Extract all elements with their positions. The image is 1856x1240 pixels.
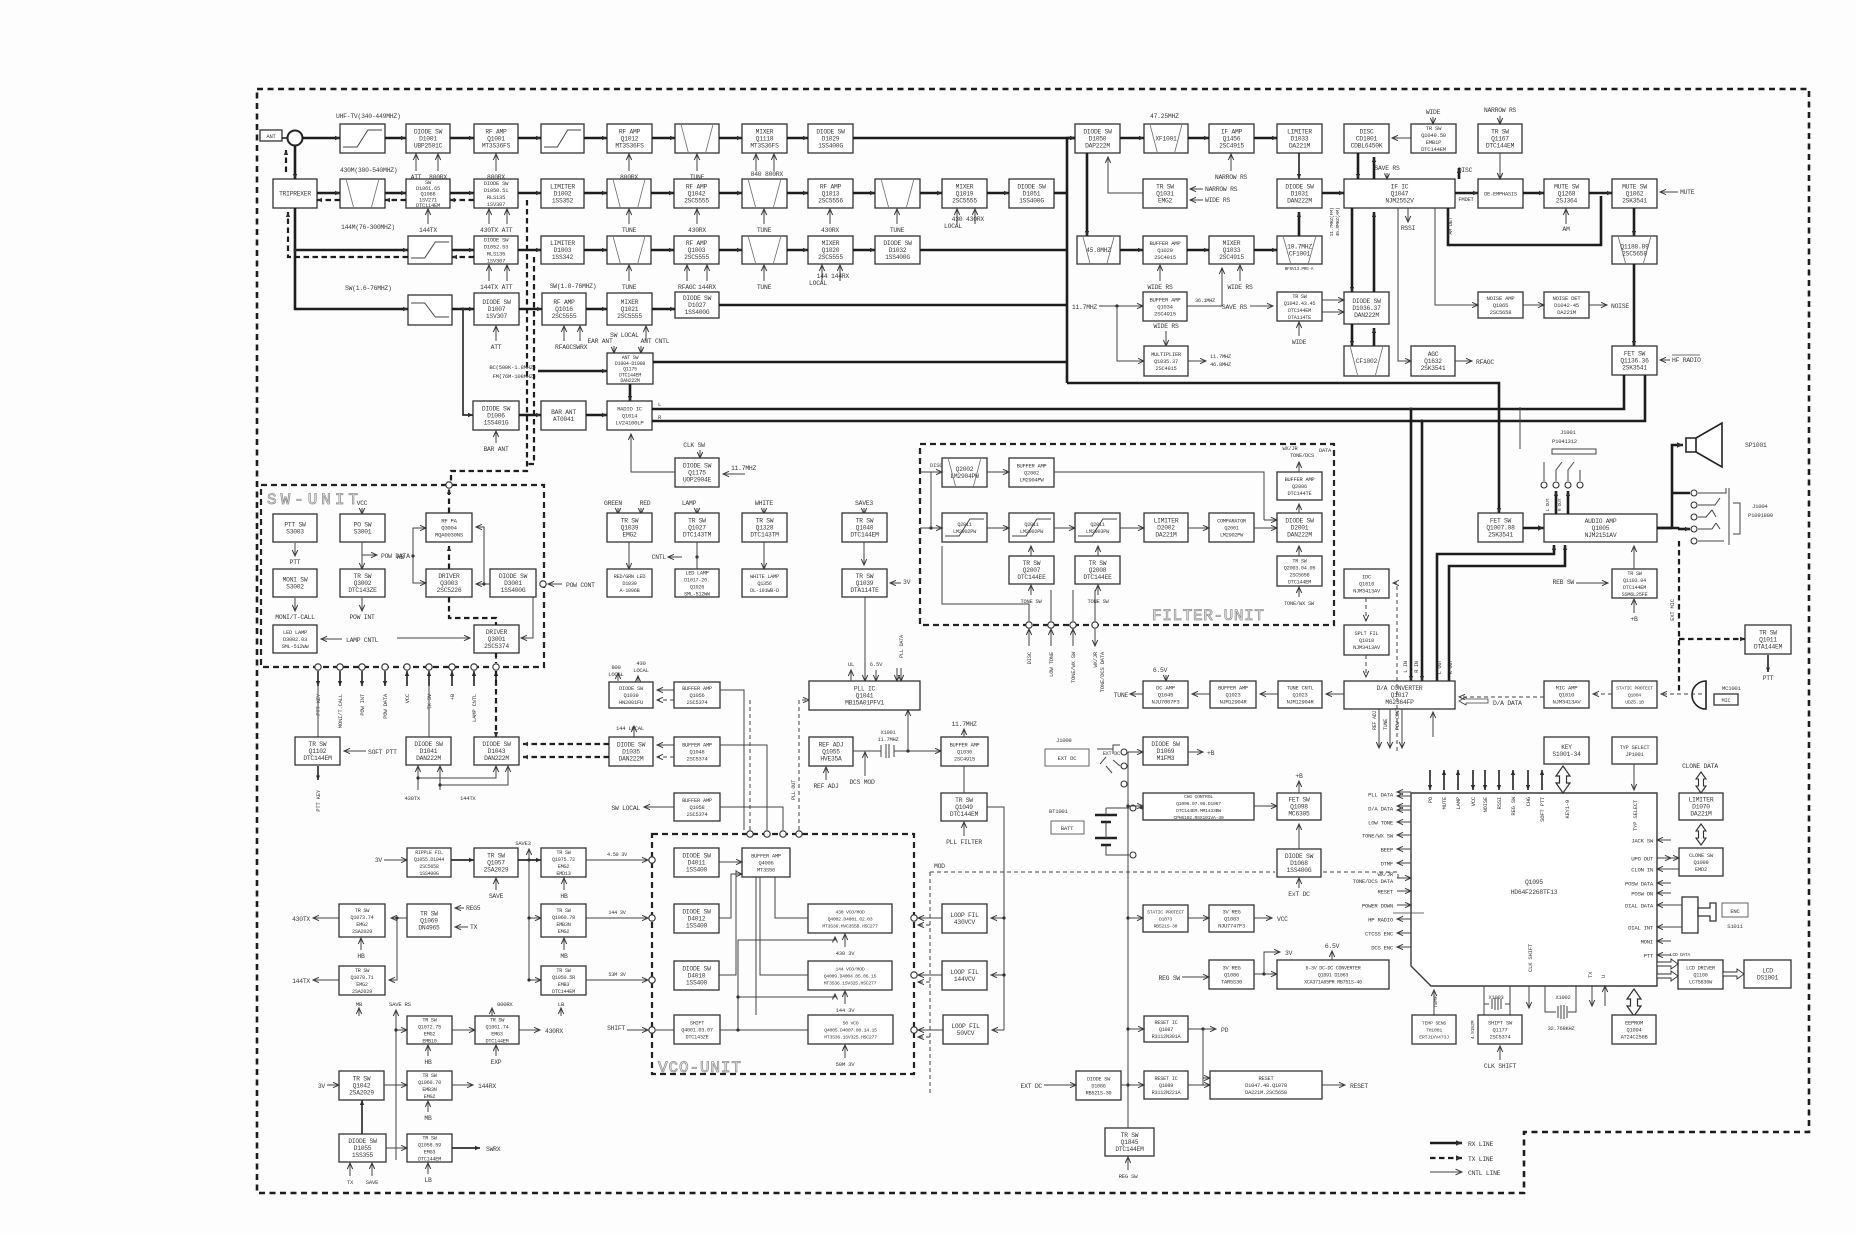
svg-text:S3002: S3002 <box>286 584 304 591</box>
svg-text:Q1060.70: Q1060.70 <box>418 1080 441 1086</box>
svg-text:LOCAL: LOCAL <box>809 280 827 287</box>
svg-text:FET SW: FET SW <box>1288 797 1310 804</box>
svg-text:2SC5374: 2SC5374 <box>484 643 509 650</box>
svg-text:144M(76-300MHZ): 144M(76-300MHZ) <box>341 224 395 231</box>
svg-text:2SC5555: 2SC5555 <box>684 198 709 205</box>
wire rx row3 <box>518 249 541 252</box>
LCD DS1001 <box>1744 960 1791 988</box>
svg-text:DTC144EM.MM1433BW: DTC144EM.MM1433BW <box>1176 808 1221 814</box>
shift to 430vco <box>738 937 835 1030</box>
svg-text:11.7MHZ: 11.7MHZ <box>878 737 900 743</box>
svg-text:Q1069: Q1069 <box>420 918 438 925</box>
svg-text:2SC5555: 2SC5555 <box>617 313 642 320</box>
filter LPF 800 <box>541 124 584 153</box>
svg-text:2SA2029: 2SA2029 <box>349 1090 374 1097</box>
svg-text:MIXER: MIXER <box>822 240 840 247</box>
svg-text:POWER DOWN: POWER DOWN <box>1362 903 1393 910</box>
svg-text:2SC5555: 2SC5555 <box>818 254 843 261</box>
svg-text:Q1057: Q1057 <box>487 860 505 867</box>
svg-text:Q1017: Q1017 <box>1391 692 1409 699</box>
AGC Q1632 <box>1411 346 1455 376</box>
wire D1031 to IF IC <box>1322 192 1344 195</box>
svg-text:RESET IC: RESET IC <box>1155 1020 1178 1026</box>
svg-text:TONE/WX SW: TONE/WX SW <box>1362 833 1394 840</box>
transistor switch Q1061-74 <box>475 1016 519 1044</box>
svg-text:BUFFER AMP: BUFFER AMP <box>682 743 712 749</box>
svg-text:LB: LB <box>424 1177 432 1184</box>
svg-text:DA221M: DA221M <box>1289 143 1311 150</box>
bandpass filter 430 <box>340 179 385 208</box>
svg-text:840: 840 <box>751 171 762 178</box>
svg-text:LM2902PW: LM2902PW <box>1220 533 1244 539</box>
svg-text:TUNE CNTL: TUNE CNTL <box>1287 686 1314 692</box>
svg-text:AGC: AGC <box>1428 351 1439 358</box>
wire lpf to D1007 <box>452 308 474 311</box>
svg-text:Q1055.D1044: Q1055.D1044 <box>414 857 445 863</box>
wire rx if chain <box>1254 137 1277 140</box>
svg-text:TX LINE: TX LINE <box>1468 1156 1494 1163</box>
D2001 up to Q2006 <box>1298 504 1300 513</box>
bandpass filter 144 b <box>742 236 787 264</box>
svg-text:DIODE SW: DIODE SW <box>1151 741 1180 748</box>
svg-text:D1003: D1003 <box>554 247 572 254</box>
svg-text:PD: PD <box>1221 1027 1229 1034</box>
svg-text:TONE/WX SW: TONE/WX SW <box>1284 601 1315 607</box>
svg-text:MT3S56: MT3S56 <box>757 868 775 874</box>
svg-text:2SC4915: 2SC4915 <box>1156 366 1177 372</box>
svg-text:2SC5374: 2SC5374 <box>687 757 708 763</box>
svg-text:2SC5658: 2SC5658 <box>1622 251 1647 258</box>
svg-text:1SV307: 1SV307 <box>486 313 508 320</box>
svg-text:PLL IC: PLL IC <box>854 686 876 693</box>
svg-text:D1002: D1002 <box>554 191 572 198</box>
down to reset box <box>1202 1029 1204 1085</box>
Q1027 down to LED lamp <box>696 542 698 569</box>
wire rx row3 <box>651 249 674 252</box>
VCO-UNIT boundary <box>652 834 914 1074</box>
svg-text:R3112N221A: R3112N221A <box>1152 1090 1182 1096</box>
svg-text:DIODE SW: DIODE SW <box>348 1138 377 1145</box>
svg-text:MB: MB <box>560 953 568 960</box>
svg-text:KEY1-9: KEY1-9 <box>1564 800 1571 819</box>
transistor switch Q1040 <box>842 513 887 542</box>
transistor switch Q1069 <box>407 904 451 937</box>
svg-text:DRIVER: DRIVER <box>486 629 508 636</box>
limiter D1070 <box>1679 793 1723 820</box>
svg-text:DIODE SW: DIODE SW <box>1285 853 1314 860</box>
temp sensor TH1001 <box>1412 1015 1456 1044</box>
svg-text:RESET: RESET <box>1259 1076 1275 1082</box>
svg-text:Q1167: Q1167 <box>1491 136 1509 143</box>
lpf Q2011 a <box>942 513 987 542</box>
svg-text:Q1100: Q1100 <box>1693 973 1707 979</box>
svg-text:2SC5374: 2SC5374 <box>1490 1035 1511 1041</box>
LED lamp D1017-20 <box>675 569 719 597</box>
svg-text:Q1011: Q1011 <box>1759 637 1777 644</box>
svg-text:Q1042: Q1042 <box>688 191 706 198</box>
loop filter 50 <box>943 1015 988 1044</box>
into Q3001 left <box>397 637 470 639</box>
svg-text:TX: TX <box>470 924 478 931</box>
svg-text:BT1001: BT1001 <box>1049 808 1069 815</box>
noise amp to det <box>1523 304 1544 306</box>
svg-text:WIDE RS: WIDE RS <box>1153 323 1179 330</box>
D3001 to driver Q3003 <box>476 583 490 585</box>
mixer Q1033 <box>1209 236 1254 264</box>
svg-text:144VCV: 144VCV <box>954 976 976 983</box>
svg-text:RF PA: RF PA <box>441 518 457 525</box>
loop filter 144 <box>942 961 987 990</box>
svg-text:SHIFT: SHIFT <box>607 1025 625 1032</box>
svg-text:RFAGC: RFAGC <box>1476 359 1494 366</box>
bandpass filter 144 <box>607 236 651 264</box>
svg-text:144TX: 144TX <box>460 795 476 802</box>
svg-text:UBP2501C: UBP2501C <box>414 143 443 150</box>
svg-text:BUFFER AMP: BUFFER AMP <box>682 798 712 804</box>
svg-text:TRIPREXER: TRIPREXER <box>279 191 311 198</box>
svg-text:Q3001: Q3001 <box>488 636 506 643</box>
svg-text:Q1014: Q1014 <box>622 413 638 420</box>
svg-text:Q1042: Q1042 <box>353 1083 371 1090</box>
svg-text:HB: HB <box>424 1059 432 1066</box>
CF1002 up to D1036 <box>1373 328 1376 346</box>
svg-text:6.5V: 6.5V <box>870 661 883 668</box>
svg-text:DTA114TE: DTA114TE <box>1288 315 1311 321</box>
svg-text:D1017-20.: D1017-20. <box>684 578 710 584</box>
AM DET route <box>1448 196 1601 245</box>
svg-text:DIODE SW: DIODE SW <box>1017 184 1046 191</box>
mixer Q1020 <box>808 236 853 264</box>
LCD data bus arrows <box>1657 959 1678 969</box>
svg-text:DAN222M: DAN222M <box>1287 532 1312 539</box>
transistor switch Q1845 <box>1105 1128 1154 1156</box>
svg-text:TR SW: TR SW <box>1426 125 1442 132</box>
svg-text:TH1001: TH1001 <box>1426 1028 1442 1034</box>
limiter D2002 <box>1144 513 1188 542</box>
tx dashed row2 <box>450 199 474 201</box>
comparator Q2001 <box>1209 513 1254 542</box>
diode switch D1050 <box>1075 124 1120 153</box>
svg-text:BUFFER AMP: BUFFER AMP <box>1149 297 1181 304</box>
svg-text:1SS355: 1SS355 <box>352 1152 374 1159</box>
svg-text:RF AMP: RF AMP <box>686 240 708 247</box>
save rs up arrow <box>395 1010 397 1044</box>
svg-text:TR SW: TR SW <box>487 853 505 860</box>
wire rx row2 <box>317 192 340 195</box>
svg-text:Q1268: Q1268 <box>1558 191 1576 198</box>
legend <box>1430 1142 1462 1145</box>
svg-text:RSSI: RSSI <box>1496 797 1503 809</box>
mod into vco <box>918 1036 930 1038</box>
save3 long vertical <box>528 860 530 980</box>
svg-text:SAVE RS: SAVE RS <box>1374 165 1400 172</box>
svg-text:Q1010: Q1010 <box>1359 638 1374 644</box>
svg-text:EMB3N: EMB3N <box>556 922 570 928</box>
svg-text:TR SW: TR SW <box>354 573 372 580</box>
filter amp Q1188-89 <box>1612 236 1657 264</box>
diode switch D4010 <box>674 961 719 990</box>
svg-text:Q1060.78: Q1060.78 <box>552 915 575 921</box>
svg-text:KEY: KEY <box>1561 744 1572 751</box>
wire rx row1 <box>450 137 474 140</box>
svg-text:DE-EMPHASIS: DE-EMPHASIS <box>1484 192 1517 198</box>
svg-text:Q1023: Q1023 <box>1226 693 1241 699</box>
svg-text:Q2006: Q2006 <box>1292 484 1307 490</box>
svg-text:MT3S36FS: MT3S36FS <box>482 143 511 150</box>
svg-text:TX: TX <box>347 1179 354 1186</box>
triplexer to SW lpf <box>295 250 408 309</box>
svg-text:11.7MHZ: 11.7MHZ <box>951 721 977 728</box>
svg-text:D1050.51: D1050.51 <box>484 187 509 194</box>
Q1069 to Q1070 <box>389 918 397 980</box>
POW CONT in <box>548 583 562 585</box>
svg-text:Q1061.74: Q1061.74 <box>486 1025 509 1031</box>
svg-text:430TX: 430TX <box>480 227 498 234</box>
diode switch D3001 <box>490 569 536 597</box>
svg-text:BUFFER AMP: BUFFER AMP <box>1285 477 1315 483</box>
svg-text:R OUT: R OUT <box>1557 498 1563 511</box>
svg-text:EMG2: EMG2 <box>424 1094 436 1100</box>
power switch S3001 <box>340 514 385 542</box>
svg-text:Q1073.74: Q1073.74 <box>351 915 374 921</box>
svg-text:1SV307: 1SV307 <box>487 258 505 265</box>
svg-text:TX: TX <box>1587 971 1594 978</box>
dial int wire <box>1671 926 1682 928</box>
svg-text:D1069: D1069 <box>1157 748 1175 755</box>
ripple filter Q1055 <box>407 848 451 877</box>
svg-text:SAVE RS: SAVE RS <box>389 1001 412 1008</box>
svg-text:AT24C256B: AT24C256B <box>1621 1035 1649 1041</box>
svg-text:D1032: D1032 <box>889 247 907 254</box>
R wire to FET SW <box>652 375 1645 421</box>
svg-text:M1FM3: M1FM3 <box>1157 755 1175 762</box>
ref adjust Q1055 <box>809 737 853 766</box>
svg-text:TR SW: TR SW <box>955 797 973 804</box>
svg-text:53M 3V: 53M 3V <box>608 972 626 978</box>
D/A DATA bus arrow <box>1459 697 1488 705</box>
dashed to TR SW Q1011 <box>1679 638 1745 640</box>
crosslink to D1043 <box>418 766 496 778</box>
svg-text:2SK3541: 2SK3541 <box>1421 365 1446 372</box>
FET switch Q1007-08 <box>1478 513 1523 542</box>
bar antenna AT0041 <box>541 401 586 430</box>
svg-text:Q1091 D1063: Q1091 D1063 <box>1318 973 1349 979</box>
MOD dashed b <box>1323 872 1406 878</box>
svg-text:SW(1.6-76MHZ): SW(1.6-76MHZ) <box>345 285 392 292</box>
antenna circle <box>288 131 303 146</box>
filter chain wire <box>1254 527 1277 529</box>
svg-text:DISC: DISC <box>1026 651 1033 664</box>
svg-text:IDC: IDC <box>1362 575 1371 581</box>
svg-text:TR SW: TR SW <box>422 1136 437 1142</box>
svg-text:DA221M: DA221M <box>1690 811 1712 818</box>
svg-text:+B: +B <box>1630 616 1638 623</box>
transistor switch Q1042b <box>339 1071 384 1100</box>
wire rx if chain <box>1120 137 1144 140</box>
mic amp Q1010 <box>1544 681 1589 708</box>
svg-text:MIXER: MIXER <box>956 184 974 191</box>
svg-text:2SC4915: 2SC4915 <box>1154 254 1176 261</box>
svg-text:CLK SW: CLK SW <box>683 442 705 449</box>
svg-text:MB: MB <box>424 1115 432 1122</box>
temp to cpu <box>1433 990 1435 1015</box>
EEPROM bus arrow <box>1627 989 1641 1016</box>
svg-text:D1052.53: D1052.53 <box>484 244 508 251</box>
svg-text:MIC AMP: MIC AMP <box>1556 685 1579 692</box>
tx dashed ant up <box>285 150 287 172</box>
svg-text:DS1001: DS1001 <box>1757 975 1779 982</box>
svg-text:R3112N301A: R3112N301A <box>1152 1034 1182 1040</box>
svg-text:Q1023: Q1023 <box>1293 693 1308 699</box>
wire CF1001 up to D1031 <box>1298 212 1301 236</box>
svg-text:D1047.48.Q1078: D1047.48.Q1078 <box>1245 1083 1287 1089</box>
wire rx row2 <box>920 192 942 195</box>
diode switch D4011 <box>674 848 719 877</box>
D1055 up to Q1042 <box>361 1100 363 1134</box>
svg-text:D1070: D1070 <box>1692 804 1710 811</box>
pll filter down <box>987 807 1004 1030</box>
diode switch D1050-51 <box>474 179 518 208</box>
svg-text:J1009: J1009 <box>1056 737 1072 744</box>
svg-text:TR SW: TR SW <box>1023 560 1041 567</box>
svg-text:DIAL INT: DIAL INT <box>1628 925 1654 932</box>
svg-text:Q1456: Q1456 <box>1223 136 1241 143</box>
svg-text:430: 430 <box>952 216 963 223</box>
svg-text:Q2011: Q2011 <box>957 522 971 528</box>
svg-text:MULTIPLIER: MULTIPLIER <box>1151 352 1182 358</box>
diode switch D1043 <box>474 737 519 765</box>
svg-text:800: 800 <box>611 664 621 671</box>
svg-text:JP1001: JP1001 <box>1626 752 1644 758</box>
svg-text:R IN: R IN <box>1414 661 1420 673</box>
svg-text:LOOP FIL: LOOP FIL <box>950 912 979 919</box>
ceramic filter CF1002 <box>1344 346 1389 376</box>
svg-text:LB: LB <box>558 1001 565 1008</box>
svg-text:PTT KEY: PTT KEY <box>315 789 322 812</box>
svg-text:NOISE: NOISE <box>1482 796 1489 812</box>
vertical bus to D1050 <box>1067 138 1075 383</box>
svg-text:LAMP: LAMP <box>682 500 697 507</box>
buffer amp Q1023 <box>1210 681 1256 708</box>
mod into vco <box>918 924 930 926</box>
svg-text:Q1087: Q1087 <box>1159 1027 1173 1033</box>
svg-text:Q2008: Q2008 <box>1089 567 1107 574</box>
mic to static protect <box>1661 693 1702 695</box>
svg-text:REG SW: REG SW <box>1158 975 1180 982</box>
red green LED D1039 <box>607 569 652 597</box>
svg-text:430 VCO/MOD: 430 VCO/MOD <box>836 910 865 916</box>
svg-text:EMB3: EMB3 <box>558 982 570 988</box>
svg-text:MB: MB <box>356 1001 363 1008</box>
wire Q1049 to DISC <box>1392 137 1411 139</box>
dashed Q3003 to Q3001 <box>449 597 496 625</box>
svg-text:MIXER: MIXER <box>621 299 639 306</box>
svg-text:GREEN: GREEN <box>604 500 622 507</box>
RF amp Q1016 <box>542 293 586 325</box>
svg-text:NJM3413AV: NJM3413AV <box>1353 589 1381 595</box>
typ select to cpu <box>1633 764 1635 790</box>
svg-text:DIODE SW: DIODE SW <box>1352 298 1381 305</box>
dashed Q3001 down <box>495 653 497 663</box>
L in down to D/A <box>1410 409 1413 681</box>
svg-text:DIODE SW: DIODE SW <box>414 129 443 136</box>
svg-text:VCC: VCC <box>357 500 368 507</box>
diode switch D1001 <box>406 124 450 153</box>
svg-text:LM2902PW: LM2902PW <box>953 529 977 535</box>
svg-text:SP1001: SP1001 <box>1745 442 1767 449</box>
svg-text:Q1083: Q1083 <box>1224 917 1239 923</box>
svg-text:D3001: D3001 <box>504 580 522 587</box>
svg-text:WIDE RS: WIDE RS <box>1227 284 1253 291</box>
svg-text:+B: +B <box>1295 773 1303 780</box>
transistor switch Q1075-72 <box>541 848 586 877</box>
upo out to clone sw <box>1671 857 1679 859</box>
svg-text:Q1356: Q1356 <box>757 581 771 587</box>
svg-text:L IN: L IN <box>1403 661 1409 673</box>
mute switch Q1062 <box>1612 179 1657 208</box>
svg-text:TYP SELECT: TYP SELECT <box>1620 745 1651 751</box>
svg-text:Q1021: Q1021 <box>621 306 639 313</box>
mixer Q1021 <box>607 293 652 325</box>
svg-text:AM: AM <box>1562 226 1570 233</box>
svg-text:MONI SW: MONI SW <box>283 577 308 584</box>
svg-text:TR SW: TR SW <box>422 1073 437 1079</box>
svg-text:430VCV: 430VCV <box>954 919 976 926</box>
svg-text:MONI/T.CALL: MONI/T.CALL <box>337 694 344 728</box>
svg-text:TEMP SENS: TEMP SENS <box>1422 1021 1446 1027</box>
svg-text:Q1328: Q1328 <box>756 525 774 532</box>
svg-text:HF RADIO: HF RADIO <box>1672 357 1701 364</box>
wire bar ant to radio IC <box>586 414 607 417</box>
svg-text:CF1002: CF1002 <box>1356 358 1378 365</box>
svg-text:BEEP: BEEP <box>1381 847 1394 854</box>
svg-text:SWRX: SWRX <box>573 344 588 351</box>
svg-text:HVE35A: HVE35A <box>820 756 842 763</box>
svg-text:Q4002.D4001.02.03: Q4002.D4001.02.03 <box>828 917 873 923</box>
dial data wire <box>1671 904 1682 906</box>
wire rx row2 <box>518 192 541 195</box>
svg-text:Q1042.43.45: Q1042.43.45 <box>1284 301 1316 307</box>
svg-text:2SC5556: 2SC5556 <box>818 198 843 205</box>
svg-text:AM DET: AM DET <box>1448 217 1454 234</box>
svg-text:LOCAL: LOCAL <box>944 223 962 230</box>
wire rx row1 <box>584 137 607 140</box>
wire D1006 to bar ant <box>519 414 541 417</box>
svg-text:800RX: 800RX <box>497 1001 513 1008</box>
svg-text:FET SW: FET SW <box>1490 518 1512 525</box>
svg-text:EMG3: EMG3 <box>424 1150 436 1156</box>
svg-text:DC AMP: DC AMP <box>1156 685 1176 692</box>
transistor switch Q1058-59 <box>407 1134 452 1162</box>
svg-text:DAN222M: DAN222M <box>416 755 441 762</box>
wire rx row3 <box>853 249 875 252</box>
svg-text:Q1027: Q1027 <box>688 525 706 532</box>
svg-text:45.8MHZ(AM): 45.8MHZ(AM) <box>1335 207 1341 236</box>
wire rx row1 <box>385 137 406 140</box>
svg-text:VCC: VCC <box>404 693 411 703</box>
svg-text:NOISE: NOISE <box>1611 303 1629 310</box>
svg-text:EEPROM: EEPROM <box>1625 1021 1643 1027</box>
svg-text:LIMITER: LIMITER <box>1287 129 1312 136</box>
split fil down to D/A <box>1365 655 1367 677</box>
svg-text:DTMF: DTMF <box>1381 861 1393 868</box>
svg-text:TR SW: TR SW <box>856 518 874 525</box>
svg-text:DAP222M: DAP222M <box>1085 143 1110 150</box>
svg-text:D1006: D1006 <box>487 413 505 420</box>
svg-text:EXT MIC: EXT MIC <box>1669 598 1676 621</box>
svg-text:TR SW: TR SW <box>353 1076 371 1083</box>
svg-text:NARROW RS: NARROW RS <box>1205 186 1238 193</box>
